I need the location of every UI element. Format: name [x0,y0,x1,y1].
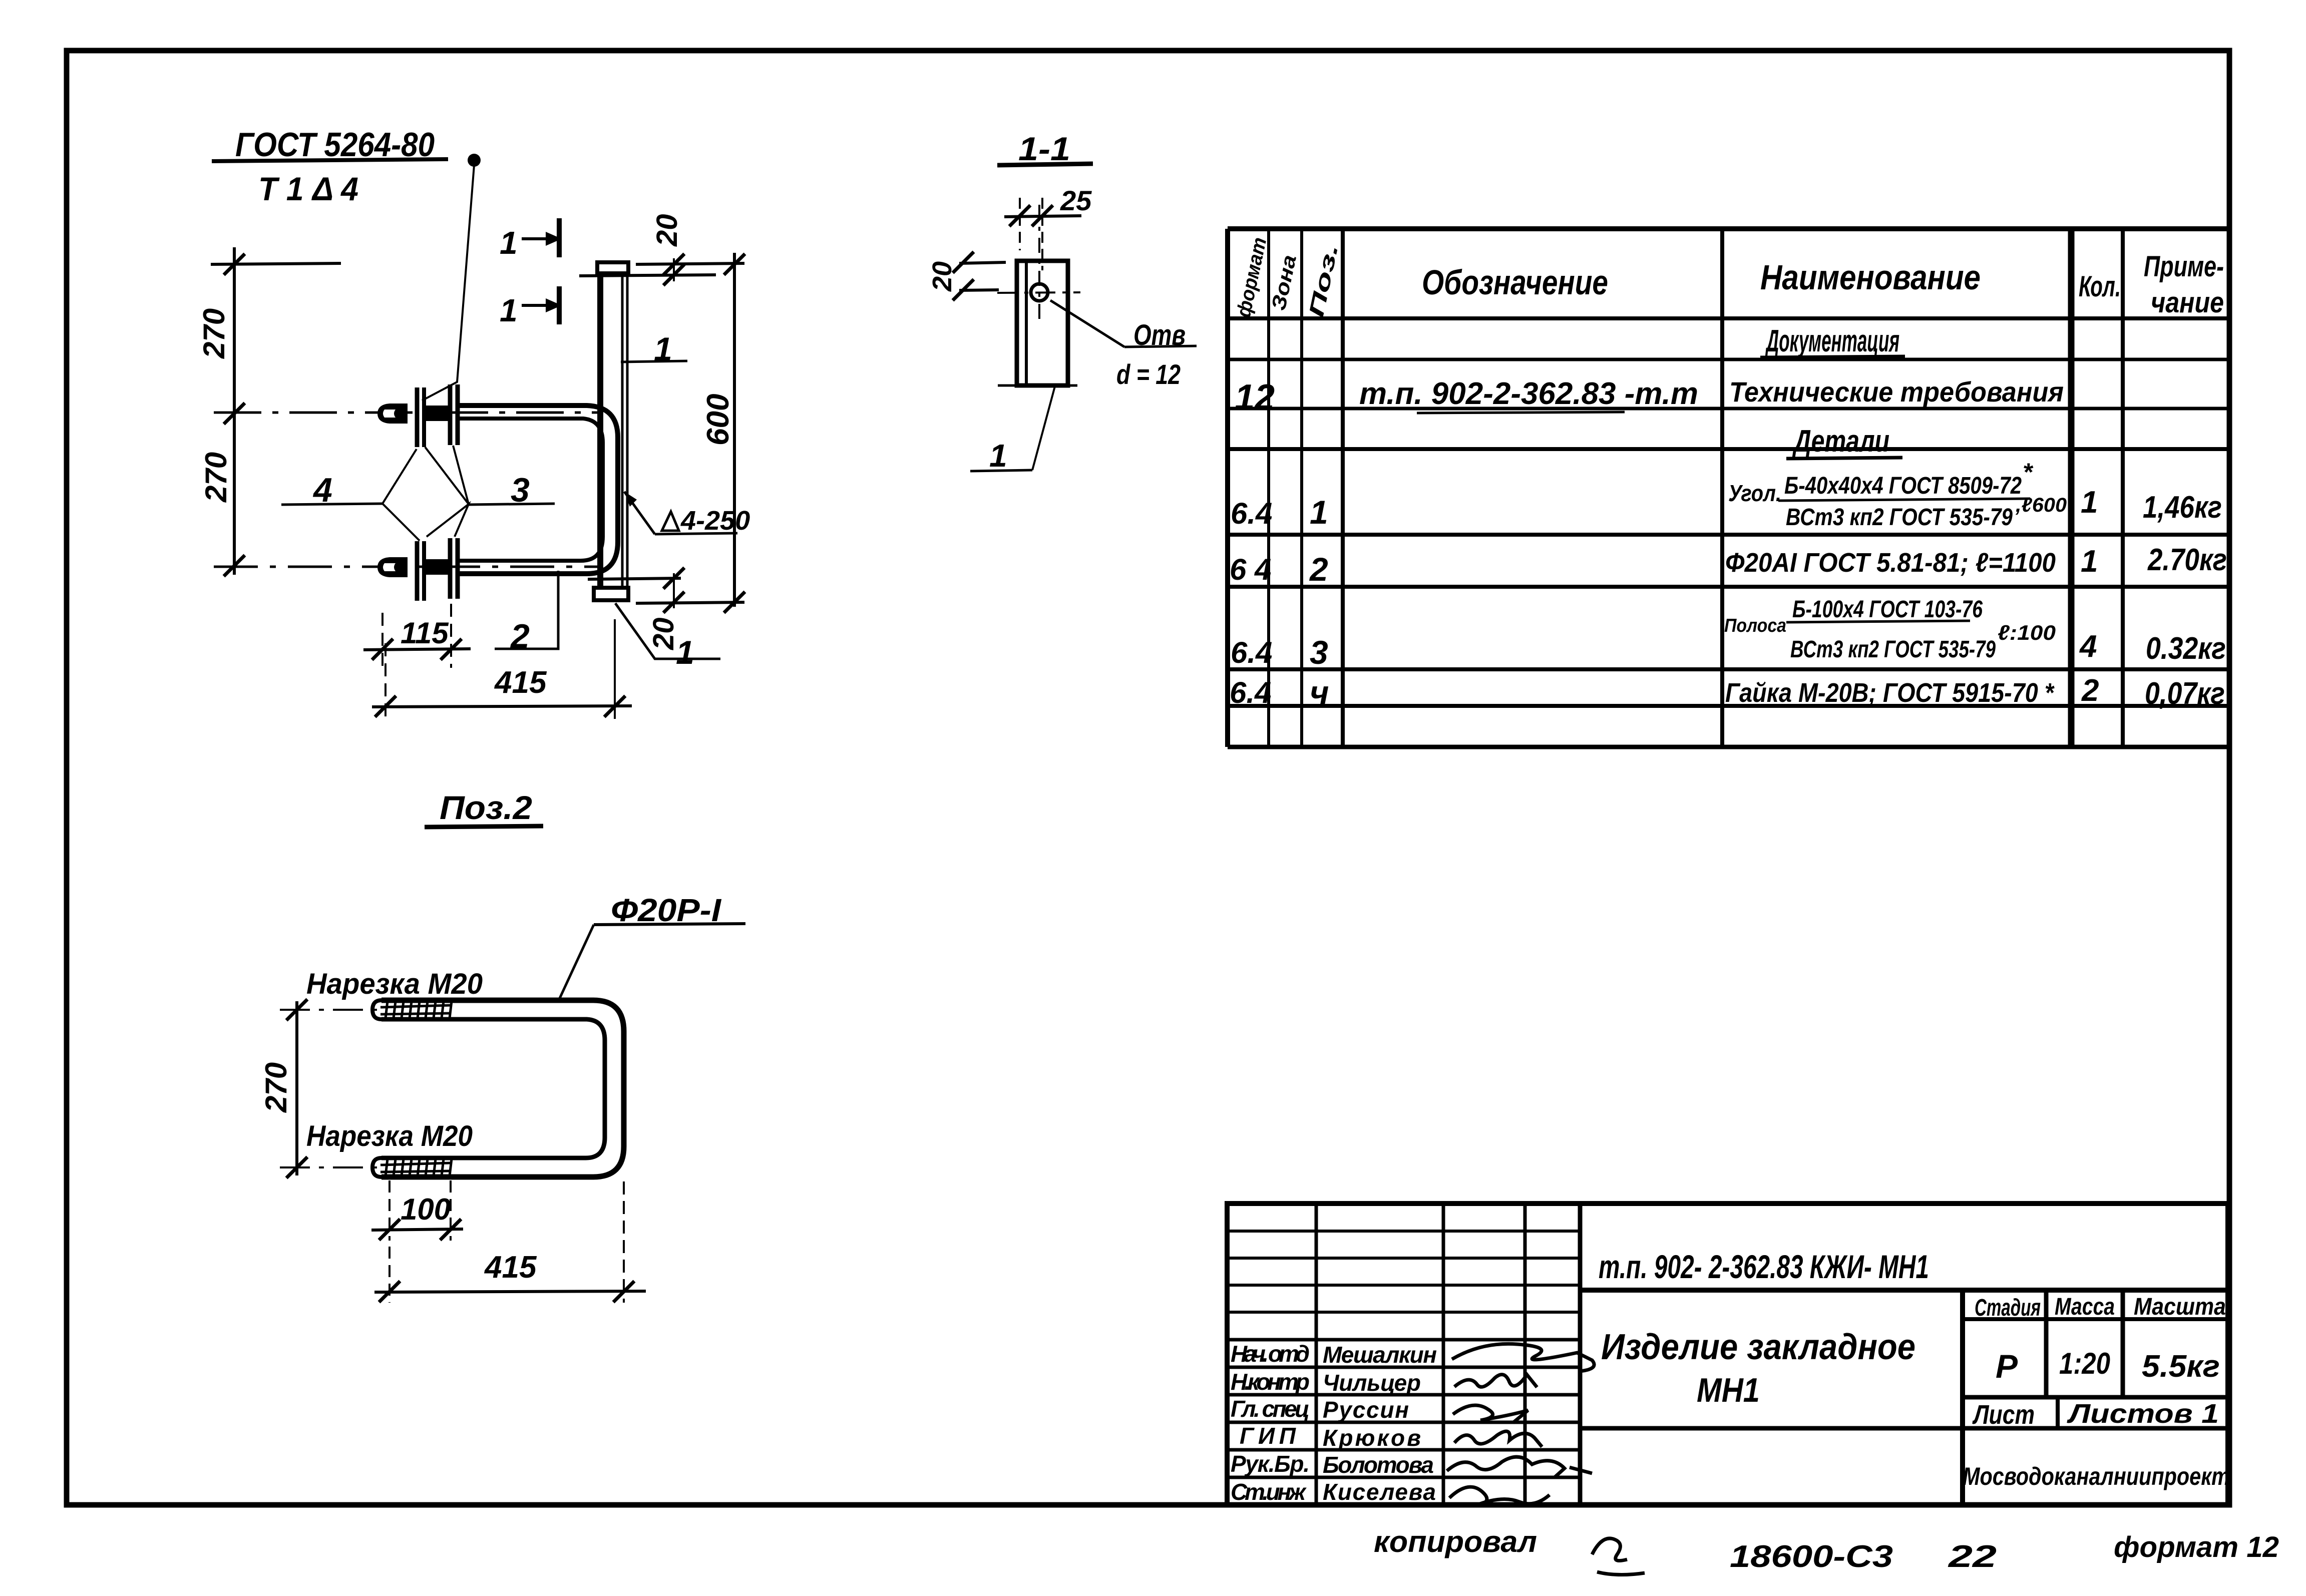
svg-text:МН1: МН1 [1697,1371,1760,1409]
section 1-1: dimension 20 (to hole) [927,252,1006,300]
spec table header texts [1233,235,2224,319]
specification table grid [1228,229,2228,747]
title block grid [1227,1204,2228,1505]
svg-text:1: 1 [1310,494,1328,531]
svg-text:6 4: 6 4 [1230,553,1271,586]
svg-text:18600-С3: 18600-С3 [1730,1539,1893,1574]
main view: dimension 600 [701,253,745,613]
pos.2 detail: dimension 270 [259,999,307,1178]
main view: angle post (pos.1) web left edge [597,273,603,589]
main view: dimension 20 bottom [588,568,744,650]
svg-text:1: 1 [2081,544,2098,579]
svg-text:*: * [2023,458,2034,486]
section 1-1: dimension 25 [1004,185,1092,270]
svg-text:270: 270 [199,452,233,503]
svg-text:Т 1 Δ 4: Т 1 Δ 4 [258,170,358,207]
main view: lower bolt tip [377,557,408,577]
svg-text:12: 12 [1235,377,1275,418]
svg-text:4: 4 [2079,629,2097,664]
svg-text:1-1: 1-1 [1018,130,1070,167]
svg-text:чание: чание [2151,286,2224,319]
spec row: т.п. 902-2-362.83 -т.т Технические требования [1235,376,2064,418]
svg-text:ВСт3 кп2 ГОСТ 535-79: ВСт3 кп2 ГОСТ 535-79 [1790,636,1996,663]
main view: label 4 with leader fan [281,449,420,541]
svg-text:1: 1 [500,225,518,261]
svg-text:Нарезка М20: Нарезка М20 [306,1120,473,1152]
main view: dimension 115 [363,584,471,668]
svg-text:20: 20 [647,617,680,650]
svg-text:ВСт3 кп2 ГОСТ 535-79: ВСт3 кп2 ГОСТ 535-79 [1786,504,2013,531]
main view: label 1 bottom leader [615,603,720,671]
main view: weld mark 4-250 [624,492,750,536]
svg-text:1:20: 1:20 [2059,1347,2110,1380]
pos.2 detail: dimension 415 [374,1181,646,1303]
svg-text:Ст.инж: Ст.инж [1231,1479,1307,1505]
svg-text:Детали: Детали [1792,424,1889,459]
main view: angle post top cap [597,262,628,273]
svg-text:Обозначение: Обозначение [1422,263,1608,302]
pos.2 detail: thread hatch bottom rod [380,1159,452,1176]
svg-text:Наименование: Наименование [1760,258,1981,297]
svg-text:0.32кг: 0.32кг [2146,631,2226,666]
svg-text:6.4: 6.4 [1231,497,1272,530]
svg-text:т.п. 902- 2-362.83 КЖИ- МН1: т.п. 902- 2-362.83 КЖИ- МН1 [1599,1248,1929,1285]
svg-text:Р: Р [1996,1348,2018,1385]
main view: U-bolt rod (pos.2) outer line [458,406,618,574]
main view: upper bolt threaded shank (dark) [425,406,448,421]
svg-text:Полоса: Полоса [1724,615,1786,636]
svg-text:Чильцер: Чильцер [1323,1370,1421,1396]
section 1-1: base line under section [998,384,1077,387]
svg-text:Рук.Бр.: Рук.Бр. [1231,1451,1310,1477]
title block roles and names [1231,1341,1437,1505]
main view: lower bolt strip washer (pos.3) [448,538,453,599]
main view: upper bolt strip washer (pos.3) [448,384,453,445]
pos.2 detail: dimension 100 [371,1180,463,1241]
main view: dimension 20 top [579,214,744,285]
svg-text:Лист: Лист [1972,1400,2035,1430]
svg-text:ℓ:100: ℓ:100 [1998,621,2056,644]
main view: U-bolt rod inner line [458,419,603,561]
svg-text:6.4: 6.4 [1231,636,1272,669]
svg-text:600: 600 [701,394,735,446]
svg-text:6.4: 6.4 [1230,676,1271,709]
svg-text:Мешалкин: Мешалкин [1323,1342,1437,1368]
svg-text:Ф20АI ГОСТ 5.81-81; ℓ=1100: Ф20АI ГОСТ 5.81-81; ℓ=1100 [1725,548,2056,578]
svg-text:Нач. отд: Нач. отд [1231,1341,1310,1367]
svg-text:d = 12: d = 12 [1116,358,1181,390]
svg-text:4-250: 4-250 [680,506,750,536]
svg-text:Кол.: Кол. [2079,270,2121,303]
svg-text:Киселева: Киселева [1323,1479,1436,1505]
section 1-1: angle cross-section outline [1017,261,1068,385]
svg-text:2: 2 [2081,673,2099,708]
main view: lower bolt threaded shank (dark) [425,559,448,575]
pos.2 detail: title [425,789,543,827]
svg-text:1: 1 [989,438,1007,474]
svg-text:3: 3 [1310,634,1328,671]
main view: dimension 415 [372,619,632,719]
svg-text:ч: ч [1310,674,1329,711]
svg-text:25: 25 [1060,185,1092,216]
main view: angle post flange double edge [621,273,624,588]
pos.2 detail: rod axes dash-dot [280,1009,379,1011]
main view: left dimension chain 270/270 [211,247,341,576]
section 1-1: label Otv d=12 [1050,300,1197,390]
spec row: Документация [1760,324,1905,358]
main view: lower bolt nut (pos.4) [415,541,420,601]
svg-text:5.5кг: 5.5кг [2142,1349,2220,1384]
svg-text:Б-40х40х4 ГОСТ 8509-72: Б-40х40х4 ГОСТ 8509-72 [1784,473,2022,499]
section 1-1: hole (otv d=12) [1031,284,1048,301]
svg-text:Стадия: Стадия [1975,1295,2041,1321]
spec row 2: Ф20АI стержень [1230,543,2227,588]
pos.2 detail: label F20R-I [559,892,745,999]
svg-text:2.70кг: 2.70кг [2147,543,2227,577]
svg-text:415: 415 [484,1250,537,1285]
svg-text:копировал: копировал [1374,1525,1537,1558]
svg-text:Угол.: Угол. [1728,480,1781,506]
svg-text:115: 115 [401,616,449,650]
svg-text:Документация: Документация [1765,324,1899,358]
main view: label 1 top leader [621,330,687,367]
svg-text:415: 415 [494,665,547,700]
svg-text:Масшта: Масшта [2134,1294,2226,1320]
svg-text:,ℓ600: ,ℓ600 [2015,494,2067,516]
svg-text:22: 22 [1948,1539,1997,1574]
svg-text:100: 100 [401,1192,451,1226]
spec row: Детали [1786,424,1902,459]
svg-text:2: 2 [1309,551,1328,588]
svg-text:Листов 1: Листов 1 [2066,1399,2219,1429]
pos.2 detail: rod tip caps [372,1000,381,1019]
svg-text:1: 1 [2081,485,2098,520]
main view: upper bolt axis (dash-dot) [214,412,597,414]
svg-text:270: 270 [259,1062,293,1113]
main view: label 2 leader [495,571,558,655]
pos.2 detail: thread hatch top rod [380,1001,452,1018]
svg-text:1: 1 [500,292,518,328]
svg-text:формат 12: формат 12 [2114,1531,2279,1563]
main view: section mark 1 (lower) [500,286,562,328]
main view: angle post bottom cap [594,588,628,600]
main view: label 3 with leader fan [425,446,555,537]
svg-text:Изделие закладное: Изделие закладное [1601,1327,1915,1367]
svg-text:Масса: Масса [2055,1294,2115,1320]
spec row 3: Полоса Б-100x4 [1231,596,2226,671]
spec row 4: Гайка М-20В [1230,673,2225,711]
svg-text:20: 20 [927,261,957,292]
pos.2 detail: U-rod inner line [381,1019,605,1158]
pos.2 detail: U-rod outer line [381,1000,624,1177]
main view: weld note GOST 5264-80 [212,126,481,401]
svg-text:1,46кг: 1,46кг [2143,490,2222,525]
main view: upper bolt tip [377,404,408,424]
svg-text:Б-100х4 ГОСТ 103-76: Б-100х4 ГОСТ 103-76 [1792,596,1983,623]
svg-text:0,07кг: 0,07кг [2145,676,2225,711]
main view: upper bolt nut (pos.4) [415,387,420,447]
svg-text:Мосводоканалниипроект: Мосводоканалниипроект [1963,1462,2230,1490]
title block signatures (scrawls) [1447,1344,1594,1506]
svg-text:Н.контр: Н.контр [1231,1369,1310,1395]
svg-text:т.п. 902-2-362.83 -т.т: т.п. 902-2-362.83 -т.т [1359,376,1698,411]
svg-text:Гайка М-20В; ГОСТ 5915-70 *: Гайка М-20В; ГОСТ 5915-70 * [1725,678,2055,708]
main view: section mark 1 (upper) [500,218,562,261]
section 1-1: hole axes [997,292,1080,293]
spec row 1: Угол Б-40x40x4 [1231,458,2222,531]
section 1-1: label 1 leader [970,386,1055,474]
svg-text:1: 1 [676,634,694,671]
svg-text:Гл. спец: Гл. спец [1231,1396,1310,1422]
svg-text:Поз.2: Поз.2 [440,789,532,826]
bottom note: copier signature [1592,1538,1645,1575]
svg-text:270: 270 [197,308,231,359]
svg-text:20: 20 [651,214,683,247]
main view: lower bolt axis (dash-dot) [214,566,597,568]
svg-text:Болотова: Болотова [1323,1452,1434,1478]
svg-text:Приме-: Приме- [2144,250,2224,283]
section 1-1: title [997,130,1093,167]
svg-text:Нарезка М20: Нарезка М20 [306,968,483,1000]
svg-text:Технические требования: Технические требования [1729,376,2064,408]
svg-text:ГИП: ГИП [1240,1423,1296,1449]
